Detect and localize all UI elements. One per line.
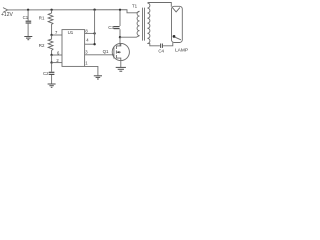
node C1 rail junction bbox=[27, 9, 29, 11]
wire Q1 source to ground bbox=[120, 61, 122, 67]
wire pin 4 bbox=[85, 43, 95, 45]
transformer T1 core bbox=[143, 8, 145, 41]
wire C1 bottom lead bbox=[27, 24, 29, 37]
svg-text:7: 7 bbox=[55, 30, 58, 35]
wire C1 top lead bbox=[27, 10, 29, 21]
ground under Q1 bbox=[116, 67, 126, 71]
capacitor C1 bbox=[26, 21, 32, 23]
wire pin 3 to gate bbox=[85, 54, 114, 56]
wire C2 bottom lead bbox=[51, 75, 53, 84]
op-amp U1 timer IC box bbox=[62, 30, 85, 67]
capacitor C3 bbox=[114, 27, 120, 29]
wire secondary bottom to C4 bbox=[147, 43, 160, 45]
resistor R1 bbox=[48, 10, 53, 35]
wire C4 to lamp bottom bbox=[163, 43, 173, 46]
svg-text:+12V: +12V bbox=[1, 12, 13, 18]
wire pin 1 to ground bbox=[85, 66, 98, 75]
ground under C1 bbox=[24, 37, 32, 40]
wire rail drop to pin 4 bbox=[94, 10, 96, 45]
node pin2 junction bbox=[50, 61, 52, 63]
node rail tee for pins 8-4 bbox=[93, 9, 95, 11]
svg-text:R2: R2 bbox=[39, 43, 45, 48]
transformer T1 secondary winding bbox=[147, 3, 150, 43]
svg-text:T1: T1 bbox=[132, 3, 138, 8]
wire C2 top lead bbox=[51, 63, 53, 72]
svg-text:8: 8 bbox=[85, 29, 88, 34]
svg-text:1: 1 bbox=[85, 61, 88, 66]
wire C3 top lead from rail bbox=[119, 10, 121, 26]
transistor Q1 MOSFET bbox=[112, 43, 129, 60]
wire pin 8 bbox=[85, 32, 95, 34]
node pin4 corner bbox=[93, 43, 95, 45]
wire to pin 2 bbox=[52, 62, 62, 64]
wire secondary top to lamp bbox=[147, 3, 171, 7]
lamp tube body bbox=[172, 6, 183, 42]
node pin8 tee bbox=[93, 32, 95, 34]
svg-text:C4: C4 bbox=[158, 49, 164, 54]
node C3 rail tee bbox=[119, 9, 121, 11]
svg-text:3: 3 bbox=[85, 49, 88, 54]
node pin6 junction bbox=[50, 54, 52, 56]
+12V input terminal bbox=[3, 8, 8, 13]
resistor R2 bbox=[48, 35, 53, 55]
wire C3 bottom lead bbox=[119, 29, 121, 37]
svg-text:U1: U1 bbox=[68, 30, 74, 35]
wire between pin6 and pin2 nodes bbox=[51, 55, 53, 63]
svg-text:C1: C1 bbox=[23, 15, 29, 20]
wire junction to primary bottom bbox=[120, 36, 140, 38]
transformer T1 primary winding bbox=[137, 11, 139, 35]
node pin7 junction bbox=[50, 34, 52, 36]
capacitor C2 bbox=[49, 72, 55, 74]
svg-text:Q1: Q1 bbox=[103, 49, 109, 54]
capacitor C4 bbox=[161, 44, 163, 48]
wire to pin 6 bbox=[52, 54, 62, 56]
ground under C2 bbox=[48, 84, 56, 87]
lamp bottom electrode bbox=[173, 35, 176, 38]
node R1 rail junction bbox=[50, 9, 52, 11]
wire to pin 7 bbox=[52, 34, 62, 36]
svg-text:R1: R1 bbox=[39, 16, 45, 21]
wire junction to Q1 drain bbox=[119, 37, 121, 46]
node drain junction bbox=[119, 36, 121, 38]
svg-text:4: 4 bbox=[86, 38, 89, 43]
svg-text:C2: C2 bbox=[43, 71, 49, 76]
ground pin 1 bbox=[94, 76, 102, 79]
svg-text:LAMP: LAMP bbox=[175, 47, 188, 53]
svg-text:C3: C3 bbox=[108, 25, 114, 30]
lamp top electrode bbox=[172, 8, 180, 12]
wire +12V rail bbox=[8, 10, 140, 13]
